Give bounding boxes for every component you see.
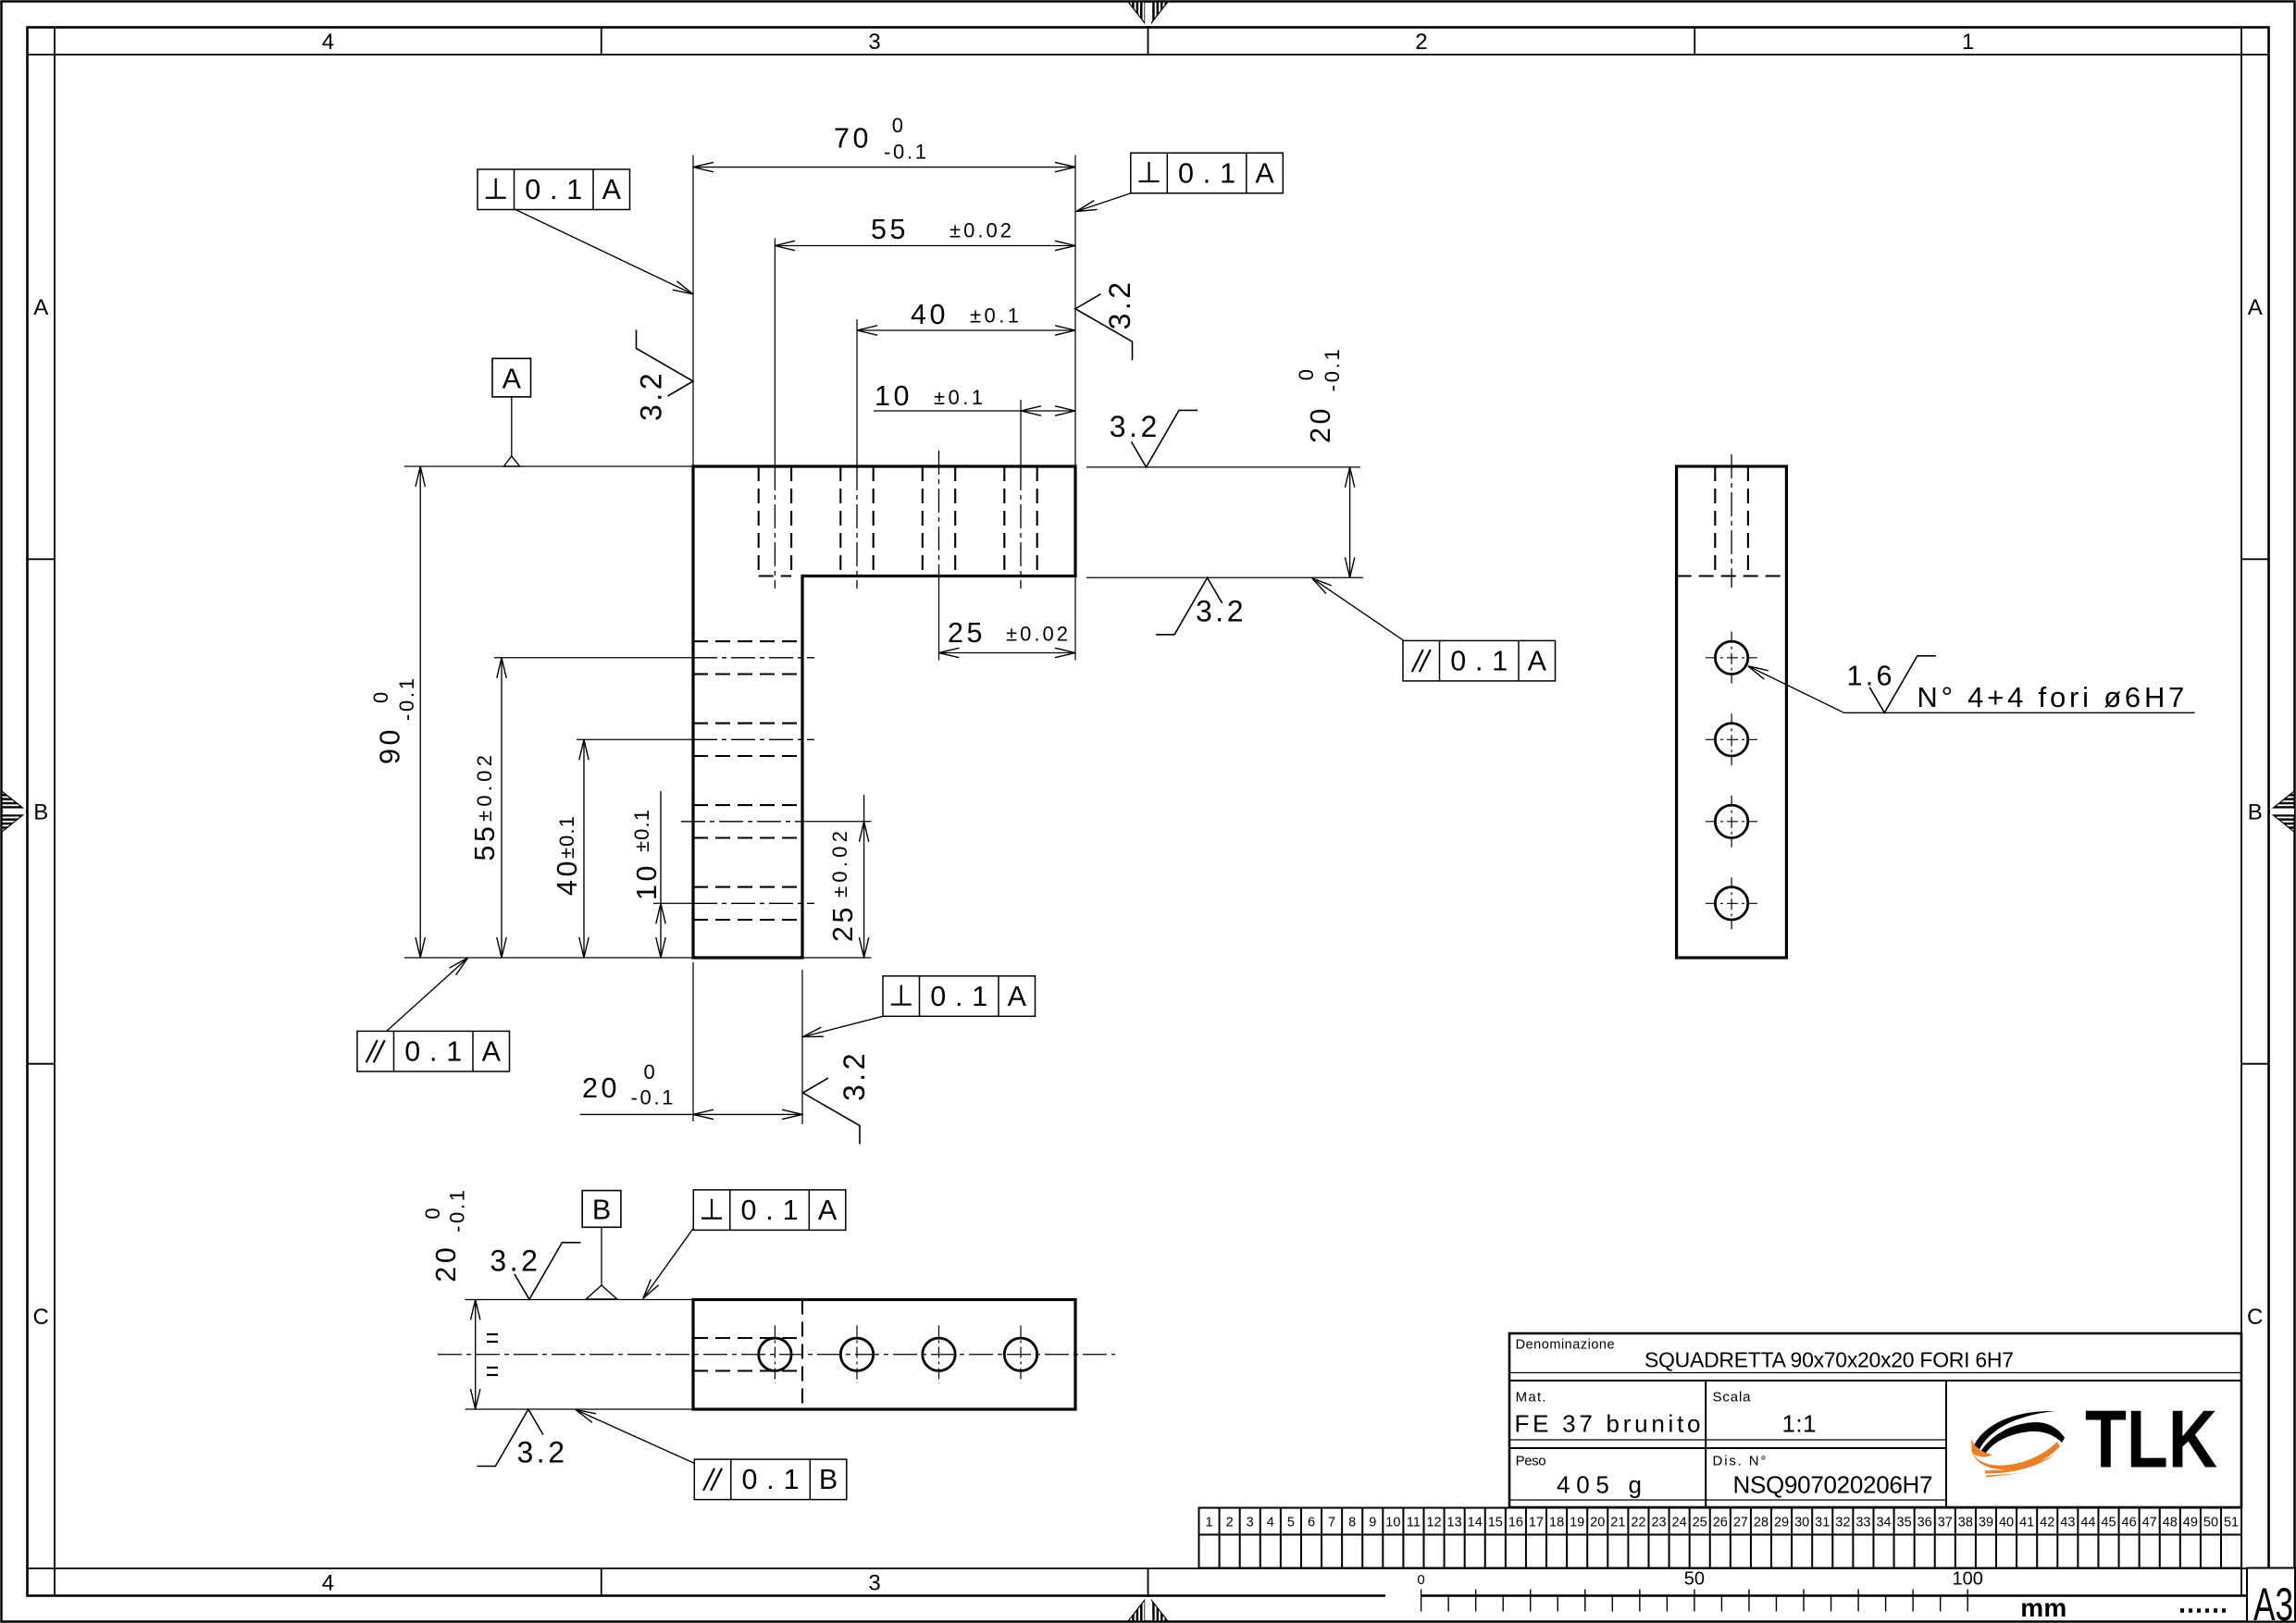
svg-text:Dis. N°: Dis. N° <box>1713 1454 1767 1469</box>
leader F7 <box>576 1410 694 1464</box>
bottom view hidden step x=867 <box>801 1300 803 1410</box>
svg-text:15: 15 <box>1488 1516 1503 1530</box>
surface mark 3.2 bottom view bottom edge <box>477 1409 543 1467</box>
svg-text:36: 36 <box>1917 1516 1932 1530</box>
svg-text:32: 32 <box>1835 1516 1850 1530</box>
feature control frame parallel 0.1 A (left) <box>357 1031 510 1072</box>
dimension 55 ±0.02 (top) <box>775 245 1075 247</box>
svg-text:A: A <box>1255 157 1274 189</box>
dimension 40 ±0.1 (top) <box>857 329 1075 331</box>
svg-text:0: 0 <box>1417 1572 1424 1588</box>
svg-text:±0.02: ±0.02 <box>949 219 1011 242</box>
A3 box <box>2247 1568 2295 1622</box>
svg-text:47: 47 <box>2142 1516 2157 1530</box>
svg-text:B: B <box>33 800 48 825</box>
svg-text:A: A <box>33 295 48 320</box>
svg-text:3.2: 3.2 <box>1103 282 1136 330</box>
svg-text:A: A <box>503 364 522 395</box>
svg-text:33: 33 <box>1855 1516 1870 1530</box>
front view L-shaped part outline <box>693 466 1075 958</box>
svg-text:40: 40 <box>1999 1516 2014 1530</box>
svg-text:11: 11 <box>1407 1516 1421 1530</box>
svg-text:1: 1 <box>1206 1516 1213 1530</box>
dimension 25 ±0.02 (right of leg) <box>802 957 872 959</box>
svg-text:3.2: 3.2 <box>1196 594 1244 627</box>
svg-text:0: 0 <box>1295 369 1318 380</box>
svg-text:3.2: 3.2 <box>517 1436 565 1469</box>
svg-text:Scala: Scala <box>1713 1390 1752 1406</box>
side view vertical centerline <box>1731 454 1732 588</box>
gap in frame bottom line before ruler zero <box>1385 1593 1421 1598</box>
side view hidden hole edges (top leg holes) <box>1714 466 1716 576</box>
svg-text:24: 24 <box>1672 1516 1687 1530</box>
leader F1 <box>515 210 693 295</box>
centerline hole y=976.3 <box>653 902 693 904</box>
centerline hole x=1103 <box>1020 400 1022 466</box>
surface mark 3.2 on right edge ext (x=1162) <box>1075 294 1133 361</box>
svg-text:100: 100 <box>1953 1569 1983 1590</box>
svg-text:9: 9 <box>1369 1516 1376 1530</box>
svg-text:3: 3 <box>868 1571 880 1596</box>
svg-text:21: 21 <box>1610 1516 1625 1530</box>
svg-text:10: 10 <box>1385 1516 1400 1530</box>
centering mark left <box>2 791 28 832</box>
leader F5 <box>387 958 468 1031</box>
TLK logo swirl <box>1970 1411 2065 1478</box>
svg-text:N° 4+4 fori ø6H7: N° 4+4 fori ø6H7 <box>1917 681 2184 713</box>
svg-text:46: 46 <box>2122 1516 2137 1530</box>
svg-text:B: B <box>592 1195 611 1226</box>
centering mark right <box>2269 791 2295 832</box>
symmetry = marks <box>487 1333 498 1335</box>
surface mark 3.2 on top edge ext (y=505) <box>1132 410 1198 467</box>
side view outline <box>1677 466 1787 958</box>
dimension 20 0/-0.1 (below leg) <box>692 962 694 1121</box>
svg-text:0: 0 <box>421 1208 444 1219</box>
svg-text:43: 43 <box>2060 1516 2075 1530</box>
svg-text:C: C <box>33 1305 49 1330</box>
title block inner lines <box>1509 1372 2241 1374</box>
svg-text:1:1: 1:1 <box>1782 1410 1817 1438</box>
svg-text:0.1: 0.1 <box>1178 157 1235 189</box>
svg-text:0.1: 0.1 <box>404 1035 462 1067</box>
svg-text:13: 13 <box>1447 1516 1462 1530</box>
svg-text:29: 29 <box>1774 1516 1789 1530</box>
svg-text:49: 49 <box>2183 1516 2198 1530</box>
svg-text:37: 37 <box>1938 1516 1953 1530</box>
svg-text:Peso: Peso <box>1516 1454 1546 1469</box>
svg-text:14: 14 <box>1468 1516 1483 1530</box>
surface mark 3.2 bottom view top edge <box>515 1243 581 1300</box>
svg-text:A3: A3 <box>2253 1579 2293 1623</box>
centerline hole y=799.3 <box>577 738 693 740</box>
svg-text:A: A <box>482 1035 502 1067</box>
svg-text:4: 4 <box>322 1571 334 1596</box>
feature control frame perpendicular 0.1 A (top right) <box>1131 153 1284 193</box>
svg-text:B: B <box>2248 800 2263 825</box>
feature control frame perpendicular 0.1 A (mid) <box>883 976 1036 1017</box>
svg-text:4: 4 <box>1267 1516 1274 1530</box>
svg-text:31: 31 <box>1815 1516 1830 1530</box>
dimension 20 0/-0.1 (right of top leg) <box>1086 466 1360 468</box>
leader note holes <box>1748 666 1844 713</box>
svg-text:23: 23 <box>1651 1516 1666 1530</box>
hidden lines: top-leg hole edges <box>758 466 760 576</box>
svg-text:SQUADRETTA 90x70x20x20 FORI 6H: SQUADRETTA 90x70x20x20 FORI 6H7 <box>1644 1348 2014 1372</box>
feature control frame parallel 0.1 B (bottom) <box>694 1459 847 1500</box>
dimension 40 ±0.1 (left) <box>583 739 585 958</box>
svg-text:A: A <box>2248 295 2263 320</box>
svg-text:50: 50 <box>1684 1569 1705 1590</box>
svg-text:0: 0 <box>644 1060 655 1084</box>
svg-text:2: 2 <box>1415 30 1427 55</box>
svg-text:0.1: 0.1 <box>930 981 987 1012</box>
surface mark 1.6 <box>1869 656 1936 713</box>
svg-text:Mat.: Mat. <box>1516 1390 1546 1406</box>
centerline hole x=837.4 <box>774 239 776 467</box>
svg-text:0: 0 <box>369 692 392 703</box>
svg-text:A: A <box>818 1195 838 1226</box>
svg-text:41: 41 <box>2019 1516 2034 1530</box>
dimension 10 ±0.1 (top) <box>874 410 1075 412</box>
bottom view ext lines (20 dim) <box>465 1299 693 1301</box>
svg-text:0.1: 0.1 <box>1450 645 1508 676</box>
svg-text:±0.1: ±0.1 <box>555 816 578 859</box>
bottom view hidden left-leg holes <box>693 1337 802 1339</box>
svg-text:27: 27 <box>1733 1516 1748 1530</box>
dimension 10 ±0.1 (left) <box>660 791 662 958</box>
svg-text:17: 17 <box>1529 1516 1544 1530</box>
svg-text:16: 16 <box>1508 1516 1523 1530</box>
svg-text:45: 45 <box>2101 1516 2116 1530</box>
centerline hole y=710.8 <box>494 657 693 659</box>
leader F2 <box>1076 193 1131 212</box>
svg-text:22: 22 <box>1631 1516 1645 1530</box>
svg-text:50: 50 <box>2203 1516 2218 1530</box>
svg-text:FE 37 brunito: FE 37 brunito <box>1515 1410 1701 1438</box>
svg-text:±0.1: ±0.1 <box>970 304 1019 328</box>
surface mark 3.2 on left edge (x=749) <box>637 330 694 397</box>
svg-text:0.1: 0.1 <box>525 174 582 205</box>
svg-text:4: 4 <box>322 30 334 55</box>
side view hidden step line <box>1677 575 1787 576</box>
datum A flag <box>492 358 531 397</box>
svg-text:18: 18 <box>1549 1516 1564 1530</box>
svg-text:0: 0 <box>892 114 903 137</box>
svg-text:±0.02: ±0.02 <box>828 831 851 898</box>
hidden line: hole 55 bottom (inside corner block) <box>759 575 791 576</box>
centering mark bottom <box>1128 1596 1168 1622</box>
svg-text:48: 48 <box>2163 1516 2178 1530</box>
bottom view holes <box>759 1338 791 1370</box>
svg-text:0.1: 0.1 <box>742 1464 800 1495</box>
svg-text:Denominazione: Denominazione <box>1516 1338 1615 1353</box>
svg-text:1.6: 1.6 <box>1847 660 1893 691</box>
svg-text:A: A <box>602 174 622 205</box>
svg-text:±0.1: ±0.1 <box>934 386 983 409</box>
bottom view horizontal centerline <box>438 1354 1115 1356</box>
ruler <box>1421 1590 1422 1612</box>
svg-text:19: 19 <box>1570 1516 1584 1530</box>
svg-text:51: 51 <box>2224 1516 2239 1530</box>
svg-text:5: 5 <box>1287 1516 1295 1530</box>
leader F4 <box>643 1228 694 1298</box>
svg-text:38: 38 <box>1958 1516 1973 1530</box>
svg-text:30: 30 <box>1794 1516 1809 1530</box>
svg-text:3: 3 <box>868 30 880 55</box>
dimension 20 0/-0.1 (bottom view) <box>475 1300 477 1410</box>
svg-text:3.2: 3.2 <box>490 1245 538 1278</box>
bottom view outline <box>693 1300 1075 1410</box>
svg-text:6: 6 <box>1308 1516 1315 1530</box>
datum B flag <box>582 1191 621 1228</box>
svg-text:3.2: 3.2 <box>838 1054 871 1102</box>
feature control frame perpendicular 0.1 A (bottom view) <box>693 1190 846 1231</box>
svg-text:25: 25 <box>1693 1516 1707 1530</box>
svg-text:42: 42 <box>2040 1516 2054 1530</box>
svg-text:2: 2 <box>1226 1516 1234 1530</box>
leader F6 <box>1312 578 1404 641</box>
svg-text:NSQ907020206H7: NSQ907020206H7 <box>1733 1471 1933 1499</box>
surface mark 3.2 on x=867 ext <box>803 1078 861 1145</box>
svg-text:39: 39 <box>1979 1516 1993 1530</box>
centerline hole x=926 <box>856 319 858 466</box>
svg-text:3.2: 3.2 <box>635 374 668 422</box>
dimension 70 0/-0.1 <box>692 155 694 467</box>
svg-text:44: 44 <box>2080 1516 2095 1530</box>
svg-text:mm: mm <box>2020 1593 2066 1622</box>
centerline hole x=1014.5 <box>938 451 940 580</box>
svg-text:12: 12 <box>1426 1516 1441 1530</box>
surface mark 3.2 under leg bottom ext (y=624.3) <box>1156 577 1222 635</box>
leader F3 <box>802 1016 883 1036</box>
svg-text:7: 7 <box>1328 1516 1335 1530</box>
zone divider ticks <box>601 28 602 56</box>
centerline hole y=887.8 <box>681 821 802 823</box>
side view holes <box>1715 641 1747 674</box>
zone band lines <box>54 28 56 1596</box>
hidden lines: left-leg hole edges <box>693 640 802 642</box>
svg-text:20: 20 <box>1590 1516 1605 1530</box>
centering mark top <box>1128 2 1168 28</box>
svg-text:B: B <box>819 1464 838 1495</box>
svg-text:C: C <box>2247 1305 2263 1330</box>
svg-text:0.1: 0.1 <box>741 1195 799 1226</box>
svg-text:A: A <box>1528 645 1547 676</box>
feature control frame parallel 0.1 A (right) <box>1403 640 1556 681</box>
svg-text:±0.02: ±0.02 <box>1006 623 1068 646</box>
svg-text:±0.1: ±0.1 <box>630 810 653 852</box>
feature control frame perpendicular 0.1 A (top left) <box>478 169 630 210</box>
svg-text:1: 1 <box>1962 30 1974 55</box>
svg-text:34: 34 <box>1876 1516 1891 1530</box>
svg-text:405 g: 405 g <box>1557 1471 1642 1499</box>
svg-text:TLK: TLK <box>2085 1394 2217 1485</box>
svg-text:A: A <box>1008 981 1027 1012</box>
numbered strip <box>1199 1508 2242 1568</box>
title block outer <box>1509 1333 2241 1507</box>
dimension 55 ±0.02 (left) <box>501 658 503 958</box>
svg-text:35: 35 <box>1897 1516 1912 1530</box>
svg-text:28: 28 <box>1754 1516 1769 1530</box>
svg-text:3: 3 <box>1247 1516 1254 1530</box>
dimension 25 ±0.02 (top leg) <box>1074 576 1076 661</box>
svg-text:±0.02: ±0.02 <box>473 755 496 822</box>
svg-text:3.2: 3.2 <box>1110 410 1158 443</box>
dimension 90 0/-0.1 (left) <box>404 465 693 467</box>
svg-text:8: 8 <box>1348 1516 1356 1530</box>
svg-text:26: 26 <box>1713 1516 1728 1530</box>
dots <box>2180 1608 2227 1613</box>
